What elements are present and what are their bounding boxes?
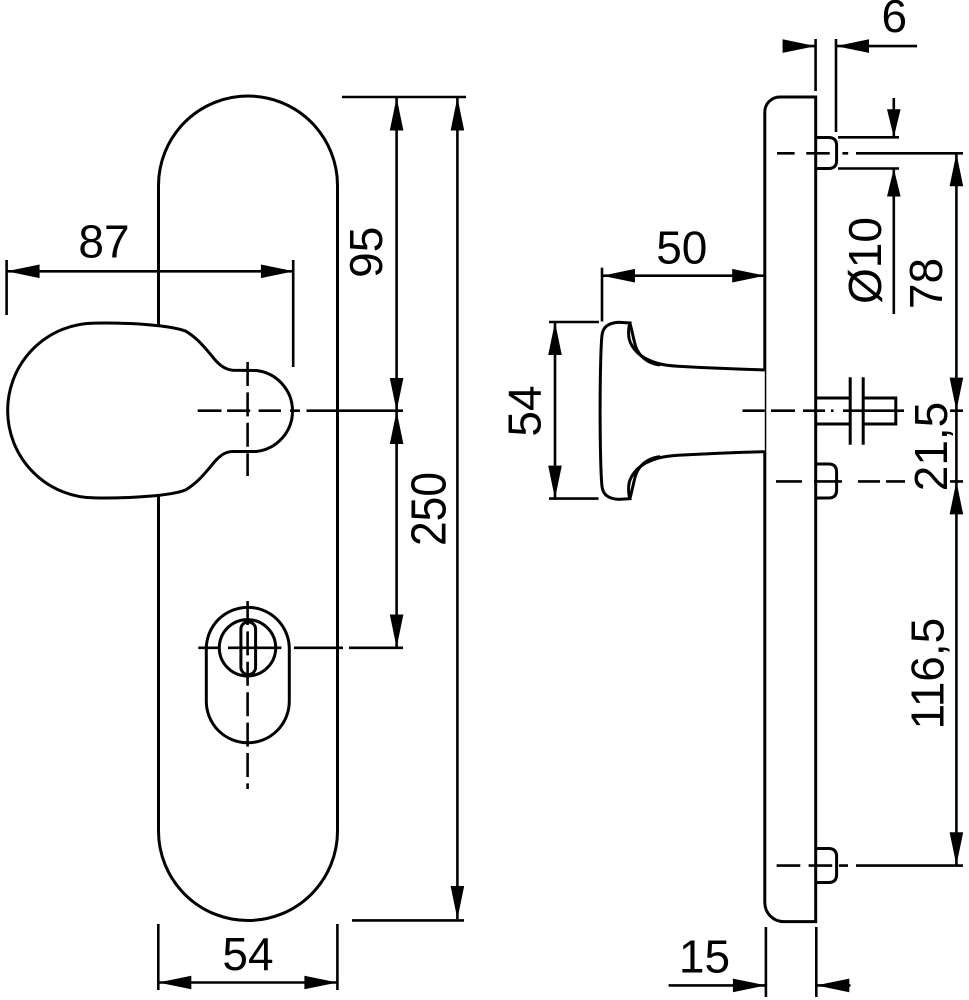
dim 95 line <box>395 98 398 412</box>
svg-text:250: 250 <box>403 472 457 546</box>
cylinder escutcheon outline (stadium) <box>206 607 289 742</box>
svg-text:Ø10: Ø10 <box>839 217 891 304</box>
dim 72 line (unlabeled) <box>395 411 398 648</box>
dim 116,5 line <box>955 481 958 865</box>
svg-text:116,5: 116,5 <box>902 618 954 730</box>
svg-text:50: 50 <box>656 221 707 273</box>
spindle nut <box>849 377 852 445</box>
dim 15 lines <box>669 984 766 987</box>
centerlines <box>198 153 963 865</box>
svg-text:15: 15 <box>679 931 730 983</box>
knob horizontal centerline <box>198 409 403 412</box>
dim 6 lines <box>783 45 816 48</box>
keyhole vertical centerline <box>246 601 249 789</box>
middle lug centerline <box>776 480 963 483</box>
screw lug middle <box>816 464 837 498</box>
dim 95 arrows <box>390 98 404 131</box>
dim 78 line <box>955 153 958 410</box>
dim 21,5 line <box>955 411 958 482</box>
knob side view outline <box>600 322 765 499</box>
top lug centerline <box>777 152 963 155</box>
dim 54 right arrows <box>548 322 562 355</box>
dim 54 left extension lines <box>157 924 160 990</box>
spindle shaft <box>816 397 850 400</box>
knob front view (blob with neck and round end) <box>8 323 293 498</box>
cylinder body circle <box>219 620 275 676</box>
bottom extension line <box>352 919 464 922</box>
dim 50 arrows <box>602 269 635 283</box>
key slot <box>241 622 256 675</box>
dim 87 arrows <box>7 265 40 279</box>
knob side view face rim bottom <box>630 457 660 499</box>
spindle end cap <box>894 397 897 426</box>
knob vertical centerline <box>246 362 249 476</box>
screw lug top <box>816 138 837 169</box>
keyhole horizontal centerline <box>198 646 403 649</box>
backplate front view (stadium shaped long plate) <box>159 96 338 920</box>
side knob centerline <box>743 409 964 412</box>
svg-text:95: 95 <box>340 227 392 278</box>
svg-text:6: 6 <box>882 0 908 42</box>
dim 54 left line <box>158 981 337 984</box>
dim 54 left arrows <box>158 976 191 990</box>
dim dia10 lines <box>892 98 895 137</box>
knob side view face rim top <box>630 323 660 365</box>
svg-text:87: 87 <box>78 216 129 268</box>
svg-text:21,5: 21,5 <box>905 402 957 492</box>
plate side view strip <box>765 97 816 922</box>
dim 15 arrows <box>733 979 766 993</box>
svg-text:54: 54 <box>222 928 273 980</box>
dim 78 arrows <box>950 153 964 186</box>
bottom lug centerline <box>777 864 963 867</box>
dim 6 arrows <box>783 39 816 53</box>
dim dia10 arrows <box>887 109 901 137</box>
dim 54 right lines <box>554 322 557 499</box>
dim 87 extension lines <box>5 260 8 315</box>
dim 72 arrows <box>390 411 404 444</box>
svg-text:54: 54 <box>499 385 551 436</box>
top extension line <box>342 96 466 99</box>
svg-text:78: 78 <box>900 258 952 309</box>
dim 116,5 arrows <box>950 481 964 514</box>
dim 250 line <box>456 98 459 920</box>
dim 87 line <box>7 270 294 273</box>
dim 50 line <box>602 274 765 277</box>
dim 250 arrows <box>451 98 465 131</box>
screw lug bottom <box>816 849 837 883</box>
